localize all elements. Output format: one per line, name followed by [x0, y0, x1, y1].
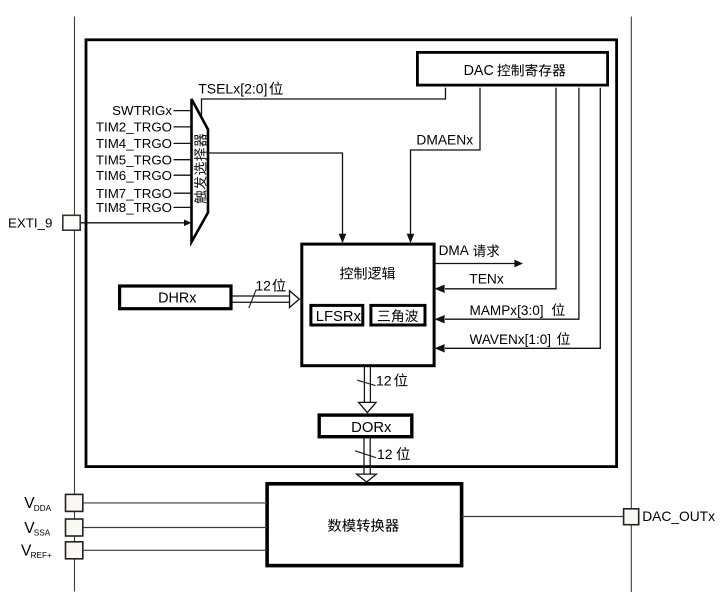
- label TIM5_TRGO input: [96, 152, 172, 167]
- bus DORx to DAC converter 12-bit: [357, 438, 377, 482]
- label DAC control register text: [464, 63, 566, 79]
- svg-text:LFSRx: LFSRx: [316, 309, 362, 325]
- svg-text:TSELx[2:0]: TSELx[2:0]: [198, 81, 267, 97]
- label DORx text: [351, 420, 392, 436]
- DAC block outer frame: [86, 40, 617, 467]
- svg-text:DDA: DDA: [34, 504, 52, 513]
- svg-text:SSA: SSA: [34, 528, 51, 537]
- pin EXTI_9 square: [63, 215, 80, 230]
- svg-text:12: 12: [376, 372, 392, 388]
- label TENx: [469, 272, 504, 287]
- svg-text:EXTI_9: EXTI_9: [8, 216, 52, 231]
- wire right chip boundary line: [630, 17, 632, 593]
- label triangle wave text: [378, 309, 418, 322]
- bus control logic to DORx 12-bit: [359, 366, 377, 412]
- svg-text:WAVENx[1:0]: WAVENx[1:0]: [470, 332, 552, 347]
- svg-text:DMA: DMA: [439, 243, 470, 258]
- label WAVENx[1:0] bits: [470, 332, 570, 347]
- register triangle wave box: [371, 305, 425, 325]
- wire TENx from register: [435, 88, 556, 293]
- bus slash DHRx width marker: [249, 290, 256, 309]
- svg-text:TIM7_TRGO: TIM7_TRGO: [96, 186, 172, 201]
- svg-text:DAC_OUTx: DAC_OUTx: [642, 509, 715, 524]
- label DMAENx: [416, 133, 473, 148]
- label DAC_OUTx: [642, 509, 715, 524]
- label TIM4_TRGO input: [96, 136, 172, 151]
- block control logic box: [302, 244, 434, 366]
- label trigger selector vertical text: [194, 134, 207, 204]
- register DHRx box: [120, 286, 231, 309]
- svg-text:MAMPx[3:0]: MAMPx[3:0]: [470, 303, 544, 318]
- wire WAVENx from register: [435, 88, 601, 353]
- pin DAC_OUTx square: [624, 509, 639, 525]
- wire TIM4_TRGO to mux: [174, 142, 192, 144]
- bus slash lower 12-bit marker: [355, 451, 376, 458]
- label MAMPx[3:0] bits: [470, 303, 565, 318]
- wire VSSA to converter: [84, 527, 267, 529]
- svg-text:12: 12: [377, 446, 393, 462]
- pin VREF+ square: [66, 542, 83, 559]
- bus DHRx to control logic 12-bit: [231, 291, 299, 308]
- label VDDA: [24, 495, 51, 513]
- label DAC converter text: [328, 519, 399, 532]
- wire EXTI_9 to mux: [81, 220, 191, 227]
- svg-text:TIM5_TRGO: TIM5_TRGO: [96, 152, 172, 167]
- register LFSRx box: [311, 305, 363, 325]
- label 12-bit lower bus: [377, 446, 410, 462]
- wire TIM7_TRGO to mux: [174, 192, 192, 194]
- wire SWTRIGx to mux: [174, 110, 192, 112]
- svg-text:TIM2_TRGO: TIM2_TRGO: [96, 120, 172, 135]
- wire mux output to control logic: [208, 153, 346, 243]
- label 12-bit upper bus: [376, 372, 407, 388]
- label LFSRx text: [316, 309, 362, 325]
- label 12-bit DHR bus: [255, 278, 285, 294]
- svg-text:TENx: TENx: [469, 272, 504, 287]
- wire TIM8_TRGO to mux: [174, 206, 192, 208]
- wire MAMPx from register: [435, 88, 579, 324]
- pin VDDA square: [66, 494, 83, 511]
- wire DMAENx from register to control logic: [407, 88, 480, 243]
- svg-text:12: 12: [255, 278, 271, 294]
- label TIM8_TRGO input: [96, 200, 172, 215]
- wire DMA request out: [434, 260, 523, 268]
- svg-text:TIM4_TRGO: TIM4_TRGO: [96, 136, 172, 151]
- svg-text:SWTRIGx: SWTRIGx: [112, 103, 172, 118]
- wire TIM5_TRGO to mux: [174, 159, 192, 161]
- mux trigger selector: [192, 99, 209, 242]
- label TIM2_TRGO input: [96, 120, 172, 135]
- svg-text:REF+: REF+: [31, 551, 52, 560]
- pin VSSA square: [66, 519, 83, 536]
- wire converter to DAC_OUTx: [462, 516, 623, 518]
- svg-text:DHRx: DHRx: [158, 290, 197, 306]
- svg-text:TIM8_TRGO: TIM8_TRGO: [96, 200, 172, 215]
- label VSSA: [24, 520, 51, 538]
- label TIM7_TRGO input: [96, 186, 172, 201]
- bus slash upper 12-bit marker: [357, 380, 375, 385]
- svg-text:DAC: DAC: [464, 63, 494, 79]
- wire TSELx from register to trigger mux: [202, 88, 446, 118]
- wire TIM6_TRGO to mux: [174, 174, 192, 176]
- label EXTI_9: [8, 216, 52, 231]
- wire VDDA to converter: [84, 502, 267, 504]
- wire left chip boundary line: [74, 17, 76, 592]
- svg-text:TIM6_TRGO: TIM6_TRGO: [96, 168, 172, 183]
- svg-text:DORx: DORx: [351, 420, 392, 436]
- label TSELx[2:0] bits: [198, 81, 283, 97]
- label control logic text: [340, 267, 395, 280]
- register DORx box: [319, 415, 412, 437]
- wire VREF+ to converter: [84, 549, 267, 551]
- block digital-to-analog converter box: [267, 484, 462, 566]
- label TIM6_TRGO input: [96, 168, 172, 183]
- label SWTRIGx input: [112, 103, 172, 118]
- register DAC control register box: [417, 52, 607, 85]
- label VREF+: [21, 543, 52, 561]
- wire TIM2_TRGO to mux: [174, 126, 192, 128]
- label DMA request: [439, 243, 500, 258]
- svg-text:DMAENx: DMAENx: [416, 133, 473, 148]
- label DHRx text: [158, 290, 197, 306]
